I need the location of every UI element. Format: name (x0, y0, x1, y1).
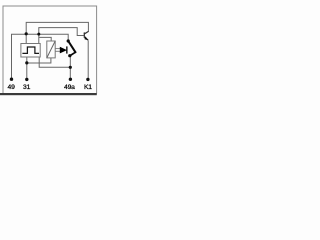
border frame (3, 6, 97, 94)
wire top loop (node A to collector) (26, 22, 88, 33)
terminal 31 (25, 78, 28, 81)
transistor emitter (84, 37, 88, 40)
actuation double line (55, 48, 60, 50)
actuation arrow head (60, 47, 67, 54)
junction ground rail (25, 61, 28, 64)
pulse generator box U1 (21, 44, 40, 58)
square-wave symbol (22, 47, 39, 53)
wire 31 vertical (26, 57, 28, 80)
svg-text:49: 49 (8, 84, 16, 91)
svg-text:31: 31 (23, 84, 31, 91)
wire jog + rail2 to 49a node (39, 57, 70, 68)
terminal 49 (10, 78, 13, 81)
bottom border band (0, 93, 97, 95)
transistor Q1 base bar (84, 32, 85, 37)
junction fixed contact (68, 54, 71, 57)
terminal K1 (86, 78, 89, 81)
wire 49 vertical (12, 34, 69, 79)
transistor collector (84, 31, 89, 34)
contact lever (68, 41, 76, 53)
junction node A (25, 32, 28, 35)
terminal 49a (69, 78, 72, 81)
wire ground rail to coil bottom (27, 58, 51, 63)
fixed contact lead (70, 52, 76, 56)
junction node B (37, 33, 40, 36)
wire K1 vertical (emitter lead) (87, 40, 89, 79)
junction 49a rail2 (69, 66, 72, 69)
wire node B drop to pulse box (38, 34, 40, 44)
relay coil K (47, 41, 55, 58)
pivot dot (67, 39, 70, 42)
armature bar (66, 46, 67, 53)
wire base loop (node B to transistor base) (39, 28, 84, 36)
wire coil feed (39, 37, 51, 41)
wire 49a vertical (69, 56, 71, 80)
wire node A drop to pulse box (25, 34, 27, 44)
svg-text:49a: 49a (64, 84, 75, 91)
emitter arrow (85, 36, 89, 40)
svg-text:K1: K1 (84, 84, 92, 91)
